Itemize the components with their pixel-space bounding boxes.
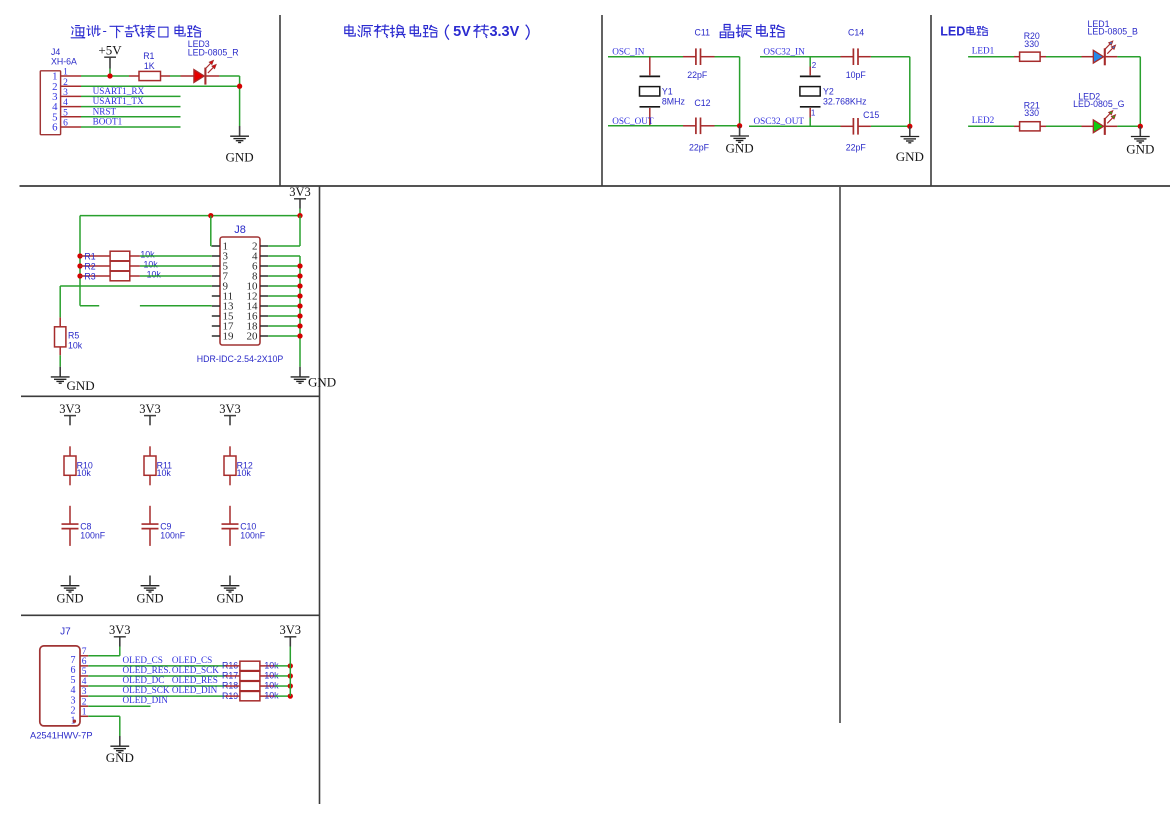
wire pin4 USART1_TX bbox=[81, 106, 181, 108]
wire OSC_IN bbox=[608, 56, 683, 58]
svg-text:C14: C14 bbox=[848, 28, 864, 38]
svg-text:3: 3 bbox=[63, 88, 68, 98]
LED LED1 labels bbox=[1088, 19, 1139, 37]
power 3V3 J7a bbox=[109, 623, 131, 647]
capacitor C15 bbox=[853, 118, 858, 135]
svg-text:HDR-IDC-2.54-2X10P: HDR-IDC-2.54-2X10P bbox=[197, 354, 284, 364]
wire C12 to junction bbox=[715, 125, 740, 127]
wire C14 to corner bbox=[871, 56, 910, 58]
capacitor C12 lead left bbox=[683, 125, 696, 127]
svg-text:LED: LED bbox=[940, 24, 965, 38]
wire right vertical osc1 bbox=[739, 57, 741, 126]
power +5V bbox=[98, 43, 122, 69]
crystal Y2 wire bottom bbox=[809, 118, 811, 126]
svg-text:3V3: 3V3 bbox=[59, 402, 81, 416]
svg-text:1: 1 bbox=[63, 68, 68, 78]
wire J7 pin6 row bbox=[88, 665, 225, 667]
wire J7 pin2 row OLED_DIN bbox=[88, 705, 150, 707]
svg-text:10k: 10k bbox=[157, 468, 172, 478]
svg-text:100nF: 100nF bbox=[80, 530, 106, 540]
wire C11 to corner bbox=[715, 56, 740, 58]
svg-text:OLED_SCK: OLED_SCK bbox=[123, 685, 170, 695]
capacitor C11 bbox=[696, 48, 701, 65]
wire 3V3 J7a stem bbox=[119, 647, 121, 656]
junction top rail pin1 branch bbox=[208, 213, 213, 218]
resistor R10 bbox=[64, 456, 76, 475]
wire corner down to GND bbox=[239, 76, 241, 126]
wire right vertical osc2 bbox=[909, 57, 911, 127]
capacitor C8 lead bottom bbox=[69, 529, 71, 546]
LED LED2 cathode lead bbox=[1106, 125, 1118, 127]
wire R17 to 3V3 rail bbox=[275, 675, 290, 677]
LED LED2 symbol bbox=[1093, 111, 1115, 135]
ground GND J7 bbox=[106, 736, 134, 765]
section divider horizontal 3 bbox=[21, 614, 320, 616]
capacitor C14 bbox=[853, 48, 858, 65]
svg-text:1: 1 bbox=[82, 707, 87, 717]
resistor R5 lead bottom bbox=[59, 347, 61, 355]
resistor R12 lead top bbox=[229, 446, 231, 456]
svg-text:7: 7 bbox=[82, 647, 87, 657]
svg-text:GND: GND bbox=[1126, 141, 1154, 156]
svg-text:4: 4 bbox=[82, 677, 87, 687]
crystal Y1 bbox=[640, 76, 661, 106]
capacitor C11 lead left bbox=[683, 56, 696, 58]
connector J8 pin numbers bbox=[223, 241, 259, 343]
ground GND J8 right bbox=[291, 367, 337, 390]
svg-text:100nF: 100nF bbox=[160, 530, 186, 540]
capacitor C8 lead top bbox=[69, 506, 71, 524]
section divider vertical 2 bbox=[601, 15, 603, 186]
resistor R5 labels bbox=[68, 331, 83, 351]
resistor R1 bbox=[139, 71, 161, 80]
ground GND crystal1 bbox=[726, 126, 754, 156]
svg-text:R1: R1 bbox=[143, 51, 154, 61]
ground GND led section bbox=[1126, 126, 1154, 156]
svg-text:NRST: NRST bbox=[93, 106, 117, 116]
svg-text:J4: J4 bbox=[51, 47, 60, 57]
svg-text:3.3V: 3.3V bbox=[489, 24, 519, 40]
svg-text:10k: 10k bbox=[237, 468, 252, 478]
resistor R1 lead right bbox=[130, 255, 140, 257]
svg-text:OLED_RES.: OLED_RES. bbox=[123, 665, 171, 675]
svg-text:OLED_DIN: OLED_DIN bbox=[172, 685, 218, 695]
resistor R3 lead left bbox=[80, 275, 110, 277]
wire LED1 to right rail bbox=[1117, 56, 1140, 58]
resistor R2 bbox=[110, 261, 130, 271]
connector J4 body bbox=[40, 71, 60, 135]
svg-text:LED-0805_B: LED-0805_B bbox=[1088, 27, 1139, 37]
svg-text:330: 330 bbox=[1024, 39, 1039, 49]
resistor R3 bbox=[110, 271, 130, 281]
svg-text:20: 20 bbox=[247, 331, 259, 343]
resistor R5 lead top bbox=[59, 317, 61, 326]
resistor R3 lead right bbox=[130, 275, 140, 277]
ground GND J8 left bbox=[51, 367, 95, 393]
svg-text:GND: GND bbox=[216, 591, 243, 605]
svg-text:3: 3 bbox=[82, 687, 87, 697]
svg-text:OSC32_OUT: OSC32_OUT bbox=[754, 116, 805, 126]
capacitor C15 lead left bbox=[841, 125, 854, 127]
svg-text:OSC32_IN: OSC32_IN bbox=[763, 47, 805, 57]
wire OSC32_IN bbox=[760, 56, 841, 58]
resistor R1 labels bbox=[143, 51, 155, 71]
svg-text:3V3: 3V3 bbox=[289, 185, 311, 199]
capacitor C12 lead right bbox=[701, 125, 715, 127]
svg-text:22pF: 22pF bbox=[846, 142, 867, 152]
capacitor C10 lead bottom bbox=[229, 529, 231, 546]
svg-text:J7: J7 bbox=[60, 627, 71, 638]
svg-text:GND: GND bbox=[226, 149, 254, 164]
section divider vertical bottom-right bbox=[839, 187, 841, 723]
svg-text:GND: GND bbox=[56, 591, 83, 605]
resistor R2 lead right bbox=[130, 265, 140, 267]
section divider horizontal 2 bbox=[21, 395, 320, 397]
svg-text:6: 6 bbox=[63, 119, 68, 129]
svg-text:2: 2 bbox=[82, 697, 87, 707]
LED LED3 labels bbox=[188, 39, 239, 58]
resistor R1 lead left bbox=[129, 75, 139, 77]
connector J4 pin numbers inside bbox=[52, 71, 58, 134]
junction pin2 gnd net bbox=[237, 84, 242, 89]
crystal Y2 wire top bbox=[809, 57, 811, 67]
svg-text:C15: C15 bbox=[863, 110, 879, 120]
svg-text:J8: J8 bbox=[234, 224, 246, 236]
junction +5V pin1 bbox=[107, 73, 112, 78]
svg-text:10pF: 10pF bbox=[846, 70, 867, 80]
wire LED right vertical bbox=[1139, 57, 1141, 127]
svg-text:A2541HWV-7P: A2541HWV-7P bbox=[30, 731, 93, 741]
svg-text:6: 6 bbox=[52, 122, 58, 134]
svg-text:2: 2 bbox=[63, 78, 68, 88]
wire R21 to LED2 bbox=[1046, 125, 1082, 127]
svg-text:OLED_DC: OLED_DC bbox=[123, 675, 165, 685]
connector J4 pin numbers outside bbox=[63, 68, 68, 129]
svg-text:10k: 10k bbox=[77, 468, 92, 478]
connector J7 pin1 marker bbox=[73, 720, 76, 723]
title 通讯-下载接口电路 bbox=[71, 23, 201, 38]
resistor R21 labels bbox=[1024, 100, 1040, 118]
wire J7 pin5 row bbox=[88, 675, 225, 677]
wire pin1 to R1 bbox=[81, 75, 129, 77]
svg-text:5: 5 bbox=[63, 108, 68, 118]
resistor R18 bbox=[240, 681, 260, 690]
connector J7 pin numbers inside bbox=[71, 655, 76, 726]
svg-text:+5V: +5V bbox=[98, 43, 122, 58]
svg-text:LED1: LED1 bbox=[972, 45, 995, 55]
title 晶振电路 bbox=[720, 25, 784, 38]
resistor R10 labels bbox=[77, 460, 93, 478]
capacitor C8 labels bbox=[80, 522, 106, 541]
resistor R20 bbox=[1020, 52, 1041, 61]
ground GND crystal2 bbox=[896, 126, 924, 164]
resistor R10 lead bottom bbox=[69, 475, 71, 485]
capacitor C9 labels bbox=[160, 522, 186, 541]
svg-text:OLED_DIN: OLED_DIN bbox=[123, 695, 169, 705]
wire pin1 drop bbox=[210, 216, 212, 246]
ground GND col3 bbox=[216, 576, 243, 606]
svg-text:3V3: 3V3 bbox=[109, 623, 131, 637]
crystal Y2 pin bottom bbox=[809, 108, 811, 118]
svg-text:R3: R3 bbox=[84, 272, 95, 282]
svg-text:-: - bbox=[103, 23, 107, 38]
junction top rail 3V3 bbox=[297, 213, 302, 218]
resistor R11 labels bbox=[157, 460, 173, 478]
junction left rail R2 bbox=[77, 263, 82, 268]
junction R18 3V3 rail bbox=[288, 683, 293, 688]
crystal Y2 bbox=[800, 76, 821, 106]
wire J8 pin2 to 3V3 bbox=[268, 216, 300, 246]
svg-text:Y2: Y2 bbox=[823, 87, 834, 97]
svg-text:22pF: 22pF bbox=[689, 142, 710, 152]
wire J8 right rail bbox=[299, 256, 301, 367]
wire R5 to gnd bbox=[59, 355, 61, 366]
svg-text:10k: 10k bbox=[68, 340, 83, 350]
junction R16 3V3 rail bbox=[288, 663, 293, 668]
capacitor C10 bbox=[222, 524, 239, 529]
wire pin3 USART1_RX bbox=[81, 95, 181, 97]
power 3V3 col2 bbox=[139, 402, 161, 426]
capacitor C9 lead top bbox=[149, 506, 151, 524]
crystal Y1 labels bbox=[662, 87, 685, 107]
crystal Y2 pin top bbox=[809, 67, 811, 76]
connector J7 pin numbers outside bbox=[82, 647, 87, 717]
LED LED2 anode lead bbox=[1082, 125, 1094, 127]
svg-text:10k: 10k bbox=[147, 270, 162, 280]
resistor R16 lead left bbox=[225, 665, 240, 667]
wire J7 pin1 to gnd bbox=[88, 716, 120, 736]
svg-text:5V: 5V bbox=[453, 24, 471, 40]
resistor R1 bbox=[110, 251, 130, 261]
svg-text:R5: R5 bbox=[68, 331, 79, 341]
connector J8 body bbox=[220, 237, 260, 345]
LED D3 anode lead bbox=[181, 75, 194, 77]
svg-text:3V3: 3V3 bbox=[280, 623, 302, 637]
wire R20 to LED1 bbox=[1046, 56, 1082, 58]
LED LED2 labels bbox=[1073, 92, 1125, 110]
svg-text:C11: C11 bbox=[695, 28, 711, 38]
connector J8 pin stubs left bbox=[212, 246, 220, 336]
wire 3V3 J7b rail bbox=[289, 647, 291, 697]
svg-text:R1: R1 bbox=[84, 252, 95, 262]
svg-text:USART1_TX: USART1_TX bbox=[93, 96, 144, 106]
wire J8 top rail bbox=[80, 215, 300, 217]
ground GND col1 bbox=[56, 576, 83, 606]
crystal Y1 pin bottom bbox=[649, 108, 651, 126]
svg-text:10k: 10k bbox=[144, 260, 159, 270]
crystal Y1 pin top bbox=[649, 57, 651, 76]
wire J8 pin4 row bbox=[268, 255, 300, 257]
capacitor C14 lead right bbox=[858, 56, 871, 58]
wire R19 to 3V3 rail bbox=[275, 695, 290, 697]
junction osc1 gnd bbox=[737, 123, 742, 128]
resistor R21 bbox=[1020, 122, 1041, 131]
wire J7 pin7 to 3V3 bbox=[88, 655, 120, 657]
resistor R19 lead right bbox=[260, 695, 275, 697]
resistor R21 lead left bbox=[1014, 125, 1020, 127]
resistor R1 lead right bbox=[161, 75, 171, 77]
wire pin1 stub connect bbox=[211, 245, 212, 247]
title LED电路 bbox=[940, 24, 988, 38]
resistor R20 labels bbox=[1024, 31, 1040, 49]
svg-text:4: 4 bbox=[63, 98, 68, 108]
resistor R1 lead left bbox=[80, 255, 110, 257]
svg-text:1K: 1K bbox=[144, 61, 155, 71]
junction R19 3V3 rail bbox=[288, 693, 293, 698]
resistor R12 lead bottom bbox=[229, 475, 231, 485]
ground GND section1 bbox=[226, 126, 254, 164]
svg-text:LED-0805_R: LED-0805_R bbox=[188, 48, 239, 58]
section divider vertical left-column bbox=[319, 186, 321, 804]
LED LED1 symbol bbox=[1093, 41, 1115, 65]
svg-text:8MHz: 8MHz bbox=[662, 97, 685, 107]
svg-text:OLED_SCK: OLED_SCK bbox=[172, 665, 219, 675]
svg-text:R2: R2 bbox=[84, 262, 95, 272]
wire J7 pin4 row bbox=[88, 685, 225, 687]
wire pin13 row segment b bbox=[140, 305, 212, 307]
wire left rail bbox=[79, 216, 81, 306]
power 3V3 J7b bbox=[280, 623, 302, 647]
svg-text:GND: GND bbox=[308, 375, 336, 390]
svg-text:GND: GND bbox=[896, 149, 924, 164]
resistor R17 bbox=[240, 671, 260, 680]
wire R3 to J8 bbox=[140, 275, 212, 277]
resistor R2 lead left bbox=[80, 265, 110, 267]
wire pin9 row bbox=[60, 285, 212, 287]
LED LED3 symbol bbox=[194, 60, 216, 84]
wire pin6 BOOT1 bbox=[81, 126, 181, 128]
junction LED gnd bbox=[1138, 124, 1143, 129]
svg-text:OSC_IN: OSC_IN bbox=[612, 47, 645, 57]
section divider vertical 3 bbox=[930, 15, 932, 186]
svg-text:GND: GND bbox=[67, 378, 95, 393]
svg-text:GND: GND bbox=[106, 750, 134, 765]
resistor R17 lead left bbox=[225, 675, 240, 677]
svg-text:6: 6 bbox=[82, 657, 87, 667]
wire pin5 NRST bbox=[81, 116, 181, 118]
svg-text:1: 1 bbox=[811, 109, 816, 118]
wire OSC32_OUT bbox=[749, 125, 841, 127]
resistor R17 lead right bbox=[260, 675, 275, 677]
title 电源转换电路（5V转3.3V） bbox=[345, 24, 529, 40]
resistor R16 bbox=[240, 661, 260, 670]
LED LED1 anode lead bbox=[1082, 56, 1094, 58]
capacitor C9 lead bottom bbox=[149, 529, 151, 546]
wire J7 pin3 row bbox=[88, 695, 225, 697]
svg-text:GND: GND bbox=[726, 140, 754, 155]
capacitor C10 labels bbox=[240, 522, 266, 541]
resistor R11 lead bottom bbox=[149, 475, 151, 485]
resistor R20 lead right bbox=[1040, 56, 1046, 58]
resistor R16 lead right bbox=[260, 665, 275, 667]
section divider vertical 1 bbox=[279, 15, 281, 186]
svg-text:OLED_RES: OLED_RES bbox=[172, 675, 218, 685]
wire R1 to LED3 bbox=[170, 75, 181, 77]
wire +5V stem bbox=[109, 69, 111, 77]
resistor R19 lead left bbox=[225, 695, 240, 697]
resistor R21 lead right bbox=[1040, 125, 1046, 127]
resistor R19 bbox=[240, 691, 260, 700]
svg-text:BOOT1: BOOT1 bbox=[93, 117, 123, 127]
capacitor C14 lead left bbox=[841, 56, 854, 58]
svg-text:5: 5 bbox=[82, 667, 87, 677]
capacitor C11 lead right bbox=[701, 56, 715, 58]
resistor R18 lead left bbox=[225, 685, 240, 687]
junction R17 3V3 rail bbox=[288, 673, 293, 678]
junction osc2 gnd bbox=[907, 124, 912, 129]
svg-text:3V3: 3V3 bbox=[219, 402, 241, 416]
power 3V3 col3 bbox=[219, 402, 241, 426]
svg-text:OLED_CS: OLED_CS bbox=[172, 655, 212, 665]
svg-text:USART1_RX: USART1_RX bbox=[93, 86, 145, 96]
wire R2 to J8 bbox=[140, 265, 212, 267]
crystal Y2 labels bbox=[823, 87, 867, 107]
ground GND col2 bbox=[136, 576, 163, 606]
connector J7 pin stubs bbox=[80, 656, 88, 716]
wire R16 to 3V3 rail bbox=[275, 665, 290, 667]
svg-text:3V3: 3V3 bbox=[139, 402, 161, 416]
capacitor C12 bbox=[696, 118, 701, 135]
LED LED3 cathode lead bbox=[206, 75, 219, 77]
connector J4 labels bbox=[51, 47, 77, 67]
resistor R11 bbox=[144, 456, 156, 475]
resistor R18 lead right bbox=[260, 685, 275, 687]
junction left rail R1 bbox=[77, 253, 82, 258]
wire OSC_OUT bbox=[608, 125, 683, 127]
svg-text:OLED_CS: OLED_CS bbox=[123, 655, 163, 665]
wire R5 drop bbox=[59, 286, 61, 317]
svg-text:22pF: 22pF bbox=[687, 70, 708, 80]
connector J8 pin stubs right bbox=[260, 246, 268, 336]
junction left rail R3 bbox=[77, 273, 82, 278]
wire LED1 to R20 bbox=[968, 56, 1014, 58]
svg-text:19: 19 bbox=[223, 331, 235, 343]
resistor R20 lead left bbox=[1014, 56, 1020, 58]
wire LED2 to right rail bbox=[1117, 125, 1140, 127]
resistor R11 lead top bbox=[149, 446, 151, 456]
resistor R12 bbox=[224, 456, 236, 475]
capacitor C9 bbox=[142, 524, 159, 529]
wire R18 to 3V3 rail bbox=[275, 685, 290, 687]
wire LED3 to corner bbox=[219, 75, 239, 77]
svg-text:32.768KHz: 32.768KHz bbox=[823, 97, 867, 107]
svg-text:2: 2 bbox=[812, 61, 817, 70]
svg-text:10k: 10k bbox=[140, 250, 155, 260]
resistor R5 bbox=[55, 327, 66, 347]
resistor R12 labels bbox=[237, 460, 253, 478]
power 3V3 col1 bbox=[59, 402, 81, 426]
wire R1 to J8 bbox=[140, 255, 212, 257]
LED LED1 cathode lead bbox=[1106, 56, 1118, 58]
svg-text:100nF: 100nF bbox=[240, 530, 266, 540]
wire pin2 row bbox=[81, 85, 240, 87]
svg-text:OSC_OUT: OSC_OUT bbox=[612, 116, 654, 126]
svg-text:Y1: Y1 bbox=[662, 87, 673, 97]
svg-text:XH-6A: XH-6A bbox=[51, 57, 77, 67]
power 3V3 J8 bbox=[289, 185, 311, 209]
wires J8 even pins 6-20 to rail bbox=[268, 266, 300, 336]
section divider horizontal main bbox=[20, 185, 1170, 187]
svg-text:LED2: LED2 bbox=[972, 115, 995, 125]
wire pin13 row segment a bbox=[80, 305, 99, 307]
svg-text:LED-0805_G: LED-0805_G bbox=[1073, 99, 1125, 109]
resistor R10 lead top bbox=[69, 446, 71, 456]
connector J4 pin stubs bbox=[61, 76, 81, 127]
svg-text:330: 330 bbox=[1024, 108, 1039, 118]
connector J7 body bbox=[40, 646, 80, 726]
capacitor C8 bbox=[62, 524, 79, 529]
wire C15 to junction bbox=[871, 125, 910, 127]
